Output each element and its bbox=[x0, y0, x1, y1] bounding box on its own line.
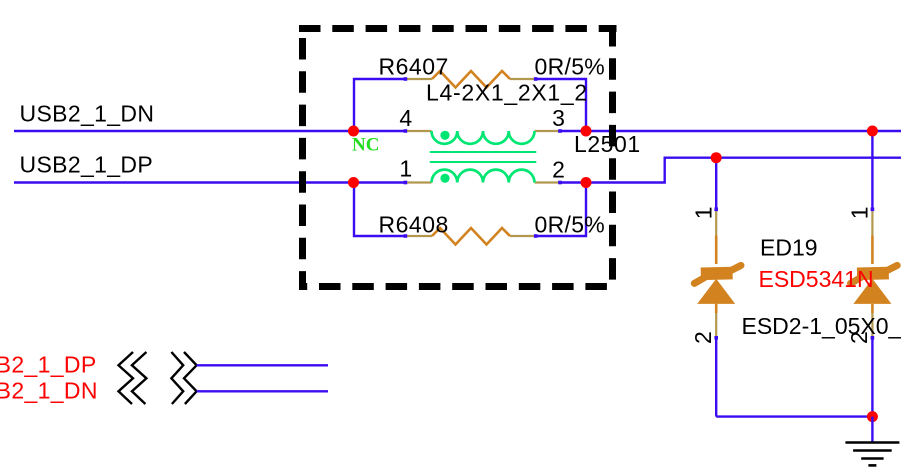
svg-text:0R/5%: 0R/5% bbox=[535, 212, 606, 238]
dashed box right edge bbox=[609, 25, 616, 287]
diode D2 triangle bbox=[853, 279, 891, 304]
diode D1 symbol top lead bbox=[715, 236, 718, 265]
junction dot DP diode tap bbox=[711, 152, 722, 163]
choke top winding bbox=[432, 131, 535, 144]
wire offpage DN bbox=[197, 390, 328, 392]
junction dot DP right bbox=[581, 177, 592, 188]
svg-text:USB2_1_DN: USB2_1_DN bbox=[0, 378, 98, 404]
choke L2501 pin 3 lead bbox=[535, 130, 562, 132]
junction dot DN left bbox=[348, 126, 359, 137]
wire DP right segment bbox=[561, 158, 901, 183]
dashed box left edge bbox=[299, 25, 306, 287]
svg-text:1: 1 bbox=[690, 206, 716, 219]
diode D2 symbol top lead bbox=[871, 236, 874, 265]
wire R6408 loop bbox=[354, 183, 405, 237]
choke top phase dot bbox=[440, 131, 449, 140]
diode D1 symbol bottom lead bbox=[715, 304, 718, 313]
off-page connector chevrons bbox=[119, 352, 197, 404]
ground bus wire bbox=[716, 415, 872, 417]
diode D1 triangle bbox=[697, 279, 735, 304]
diode D1 lower wire bbox=[715, 338, 717, 417]
junction dot DP left bbox=[348, 177, 359, 188]
diode D2 cathode bar bbox=[851, 265, 898, 283]
svg-text:1: 1 bbox=[846, 206, 872, 219]
svg-text:0R/5%: 0R/5% bbox=[535, 54, 606, 80]
choke bottom phase dot bbox=[440, 174, 449, 183]
diode D1 cathode bar bbox=[694, 265, 741, 283]
choke core line 2 bbox=[431, 161, 536, 163]
chevron stroke 4 bbox=[184, 352, 197, 404]
svg-text:L4-2X1_2X1_2: L4-2X1_2X1_2 bbox=[426, 79, 588, 105]
chevron stroke 2 bbox=[132, 352, 147, 404]
diode D1 pin 2 lead bbox=[715, 313, 717, 338]
svg-text:R6407: R6407 bbox=[379, 54, 449, 80]
chevron stroke 3 bbox=[171, 352, 183, 404]
svg-text:NC: NC bbox=[352, 135, 379, 156]
svg-text:1: 1 bbox=[399, 156, 412, 182]
svg-text:2: 2 bbox=[552, 157, 565, 183]
svg-text:USB2_1_DP: USB2_1_DP bbox=[20, 151, 154, 177]
svg-text:R6408: R6408 bbox=[379, 212, 449, 238]
choke L2501 pin 1 lead bbox=[405, 181, 432, 183]
resistor R6408 body bbox=[432, 228, 510, 245]
wire offpage DP bbox=[197, 364, 328, 366]
ground stem bbox=[871, 417, 873, 442]
diode D2 symbol bottom lead bbox=[871, 304, 874, 313]
resistor R6407 body bbox=[432, 71, 510, 88]
junction dot ground bbox=[867, 411, 878, 422]
svg-text:ED19: ED19 bbox=[760, 235, 818, 261]
svg-text:ESD5341N: ESD5341N bbox=[759, 266, 874, 292]
junction dot DN right bbox=[581, 126, 592, 137]
resistor R6407 leads bbox=[405, 78, 432, 80]
diode D2 upper wire bbox=[871, 131, 873, 210]
svg-text:ESD2-1_05X0_02: ESD2-1_05X0_02 bbox=[742, 313, 901, 339]
wire R6407 loop bbox=[354, 79, 405, 131]
junction dot DN diode tap bbox=[867, 126, 878, 137]
choke L2501 pin 2 lead bbox=[535, 181, 562, 183]
chevron stroke 1 bbox=[119, 352, 134, 404]
wire USB2_1_DP left segment bbox=[14, 181, 405, 183]
diode D2 lower wire bbox=[871, 338, 873, 417]
diode D1 upper wire bbox=[715, 158, 717, 210]
dashed box bottom edge bbox=[299, 283, 617, 290]
svg-text:2: 2 bbox=[690, 331, 716, 344]
choke bottom winding bbox=[432, 170, 535, 183]
diode D2 pin 2 lead bbox=[871, 313, 873, 338]
ground symbol bbox=[845, 443, 899, 466]
choke core line 1 bbox=[431, 151, 536, 153]
choke L2501 pin 4 lead bbox=[405, 130, 432, 132]
diode D2 pin 1 lead bbox=[871, 210, 873, 236]
dashed box top edge bbox=[299, 25, 617, 32]
diode D1 pin 1 lead bbox=[715, 210, 717, 236]
svg-text:USB2_1_DN: USB2_1_DN bbox=[20, 100, 155, 126]
wire DN right segment bbox=[561, 130, 901, 132]
svg-text:4: 4 bbox=[399, 105, 412, 131]
svg-text:3: 3 bbox=[552, 105, 565, 131]
svg-text:USB2_1_DP: USB2_1_DP bbox=[0, 352, 97, 378]
pin end nubs bbox=[404, 77, 875, 339]
resistor R6408 leads bbox=[405, 235, 432, 237]
dashed selection box bbox=[299, 25, 617, 287]
wire USB2_1_DN left segment bbox=[14, 130, 405, 132]
